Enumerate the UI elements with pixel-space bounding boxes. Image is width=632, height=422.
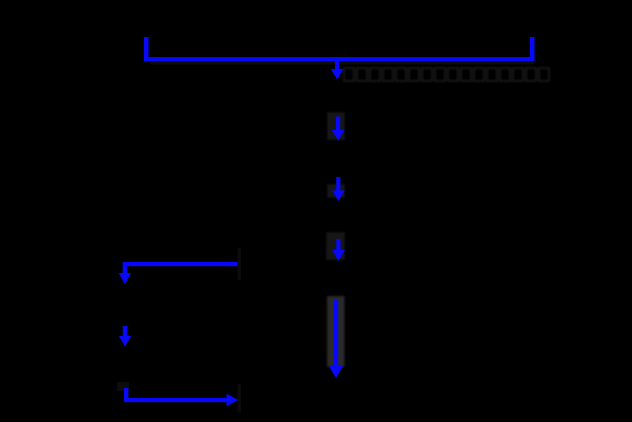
ghost box around arrow 3 head xyxy=(327,184,345,198)
long centre arrow xyxy=(328,300,343,378)
ghost box around arrow 2 head xyxy=(327,112,345,140)
arrow 2 (dashed-stage) xyxy=(332,117,345,141)
bracket right tick xyxy=(530,37,535,61)
ghost edge of centre box left side (lower) xyxy=(238,384,241,412)
left connector: corner stub down xyxy=(123,262,127,274)
ghost corner of left box bottom xyxy=(117,382,129,391)
bracket left tick xyxy=(144,37,149,61)
top arrow from bracket xyxy=(331,59,344,80)
ghost shadow under bracket bar xyxy=(150,62,534,65)
ghost text row right of top arrow xyxy=(344,68,549,81)
bottom connector: horizontal line xyxy=(124,398,227,402)
arrow 4 xyxy=(332,239,345,261)
ghost band behind long centre arrow xyxy=(327,296,345,367)
left connector: horizontal line from centre box xyxy=(123,262,238,266)
bottom connector arrowhead pointing right xyxy=(227,394,239,407)
left connector arrowhead xyxy=(119,273,131,285)
bracket top bar xyxy=(144,57,535,61)
ghost edge of centre box left side (upper) xyxy=(238,248,241,280)
arrow 3 xyxy=(332,177,345,201)
left arrow 2 xyxy=(119,326,131,347)
bottom connector: stub up from left box xyxy=(124,388,128,401)
ghost box around arrow 4 head xyxy=(326,232,345,260)
